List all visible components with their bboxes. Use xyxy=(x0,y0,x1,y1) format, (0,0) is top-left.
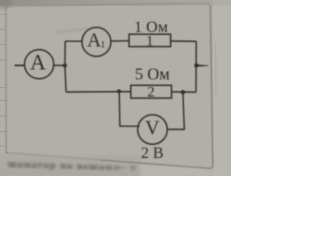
wire: resistor R1 to right riser xyxy=(171,40,197,42)
wire: voltmeter right lead xyxy=(167,92,184,129)
voltmeter V xyxy=(138,115,168,145)
junction node: voltmeter right tap xyxy=(181,90,185,94)
wire: right terminal stub xyxy=(197,65,209,67)
junction node: left branch point xyxy=(63,63,67,67)
resistor R1 xyxy=(129,33,171,49)
resistor R2 xyxy=(131,85,172,101)
wire: right vertical riser xyxy=(195,41,197,92)
wire: ammeter A to left junction xyxy=(54,64,65,66)
junction node: right terminal branch point xyxy=(194,63,198,67)
wire: ammeter A1 to resistor R1 xyxy=(111,40,129,42)
wire: voltmeter left lead xyxy=(119,92,139,126)
wire: left terminal stub xyxy=(15,64,25,66)
ammeter A1 xyxy=(82,27,111,56)
wire: resistor R2 to right riser xyxy=(172,91,197,93)
ammeter A xyxy=(24,50,53,79)
junction node: voltmeter left tap xyxy=(117,89,121,93)
wire: top branch left segment xyxy=(65,40,82,42)
wire: left vertical riser xyxy=(65,41,66,92)
wire: bottom branch left segment xyxy=(66,91,131,93)
